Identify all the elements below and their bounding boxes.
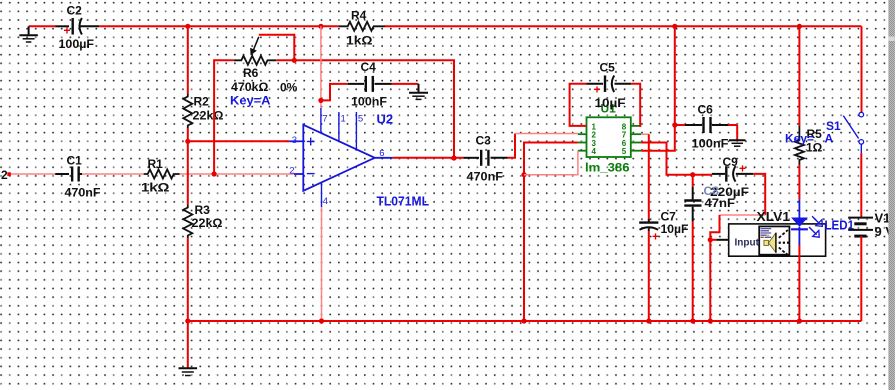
speaker XLV1 icon frame	[759, 226, 789, 254]
svg-text:C1: C1	[67, 154, 83, 168]
label pin 1	[341, 114, 346, 125]
wire op-amp V+ riser from top rail	[320, 26, 322, 108]
svg-text:47nF: 47nF	[705, 196, 736, 210]
wire GND2 stub below rail	[187, 321, 189, 368]
wire C8 to bottom rail	[692, 222, 694, 321]
port 2 input terminal	[1, 168, 11, 182]
LED LED1	[791, 199, 808, 245]
wire to U1 pin 2 (signal)	[515, 133, 578, 135]
svg-text:470nF: 470nF	[65, 186, 101, 200]
label 470kOhm value of R6	[231, 80, 269, 94]
wire feedback R6 right to output node	[276, 60, 454, 158]
capacitor C1 470nF	[55, 167, 82, 182]
U1 pin 6 stub	[631, 142, 641, 144]
wire S1 to battery V1	[860, 153, 862, 217]
svg-text:U2: U2	[377, 112, 394, 127]
resistor R1 1k	[144, 170, 180, 179]
label C5	[600, 61, 616, 75]
junction top rail at C6 riser	[672, 24, 677, 29]
U1 pin 2 number	[592, 131, 597, 140]
op-amp U2 pin 1 lead	[338, 112, 340, 142]
svg-text:A: A	[825, 132, 834, 146]
svg-text:C4: C4	[361, 60, 377, 74]
svg-text:1kΩ: 1kΩ	[141, 181, 170, 195]
label R3	[195, 203, 211, 217]
battery V1 9V	[848, 218, 873, 237]
resistor R4 1k in top rail	[339, 22, 385, 31]
speaker XLV1 document icon	[761, 229, 772, 238]
wire R2 bottom to node A junction	[187, 128, 189, 141]
junction top rail at op-amp supply riser	[318, 24, 323, 29]
switch S1	[843, 112, 863, 153]
svg-text:R2: R2	[194, 95, 210, 109]
speaker XLV1 box	[729, 224, 826, 256]
label U2	[377, 112, 394, 127]
svg-text:R6: R6	[243, 66, 259, 80]
op-amp U2 pin 4 lead	[321, 183, 323, 208]
junction bottom rail at C7	[646, 318, 651, 323]
label 22kOhm value of R3	[192, 216, 223, 230]
label pin 5	[358, 114, 363, 125]
U1 pin 4 stub	[578, 150, 587, 152]
label Input of XLV1	[735, 238, 760, 249]
svg-text:10µF: 10µF	[661, 222, 689, 236]
junction speaker input node	[708, 237, 713, 242]
svg-text:7: 7	[322, 114, 327, 125]
svg-text:C9: C9	[723, 155, 739, 169]
junction bottom rail at pin 4	[319, 318, 324, 323]
svg-text:XLV1: XLV1	[757, 210, 791, 224]
capacitor C4 100nF	[348, 76, 392, 92]
U1 pin 7 stub	[631, 133, 641, 135]
svg-text:C6: C6	[698, 103, 714, 117]
wire C9 to speaker elbows	[710, 174, 765, 240]
svg-text:5: 5	[622, 147, 627, 156]
svg-text:Key=: Key=	[785, 132, 814, 146]
U1 pin 5 stub	[631, 150, 641, 152]
wire op-amp pin 4 to bottom rail	[321, 207, 323, 321]
wire top rail corner down to S1	[861, 26, 863, 112]
wire R6 left terminal elbow down to inverting node	[214, 60, 234, 174]
U1 pin 3 number	[592, 139, 597, 148]
junction R6 bottom / inverting input	[212, 171, 217, 176]
svg-text:C2: C2	[67, 4, 83, 18]
junction C6 riser	[672, 122, 677, 127]
ground GND1 top-left	[19, 26, 37, 42]
wire battery V1 to bottom rail corner	[860, 236, 862, 321]
label 47nF value of C8	[705, 196, 736, 210]
label XLV1	[757, 210, 791, 224]
svg-text:Input: Input	[735, 238, 760, 249]
label A key of S1	[825, 132, 834, 146]
op-amp U2 pin 3 stub	[289, 140, 303, 142]
wire U1 pin 5 to C6 riser	[641, 26, 675, 150]
ground GND3 at C4	[409, 84, 428, 100]
label pin 3	[292, 135, 297, 146]
wire top rail R4 to battery branch	[385, 25, 862, 27]
junction bottom rail at LED1	[797, 318, 802, 323]
svg-text:1: 1	[341, 114, 346, 125]
op-amp U2 triangle	[303, 125, 374, 191]
svg-text:22kΩ: 22kΩ	[193, 109, 224, 123]
wire C5 right riser to U1 pin 8	[631, 84, 641, 126]
label 10uF value of C7	[661, 222, 689, 236]
junction bottom rail at pin3 riser	[521, 318, 526, 323]
capacitor C8 47nF vertical	[684, 187, 701, 222]
svg-text:C5: C5	[600, 61, 616, 75]
capacitor C9 220uF polarized	[712, 162, 753, 182]
wire R3 bottom to bottom rail	[187, 238, 189, 321]
svg-text:100nF: 100nF	[692, 137, 729, 151]
label 100nF value of C4	[351, 95, 387, 109]
U1 pin 8 number	[622, 122, 627, 131]
wire U1 pin 3 to ground riser	[524, 143, 578, 322]
wire C8 from junction	[692, 175, 694, 187]
U1 pin 5 number	[622, 147, 627, 156]
wire R5 to LED1	[798, 165, 800, 200]
label R5	[807, 127, 823, 141]
resistor R2 22k vertical	[183, 94, 192, 128]
svg-text:TL071ML: TL071ML	[377, 193, 430, 208]
label C3	[476, 134, 492, 148]
label U1	[601, 102, 617, 116]
wire R1 to op-amp pin 2 (signal)	[180, 173, 294, 175]
wire C4 right to GND3	[392, 83, 419, 85]
label 0% wiper position	[280, 81, 298, 95]
label pin 4	[323, 196, 328, 207]
wire U1 pin 4 to riser	[524, 151, 578, 175]
U1 pin 6 number	[622, 139, 627, 148]
speaker XLV1 horn icon	[764, 233, 776, 253]
wire node A down to R3	[187, 141, 189, 205]
potentiometer R6 wiper arrow	[250, 37, 259, 56]
U1 pin 3 stub	[578, 142, 587, 144]
svg-text:S1: S1	[826, 119, 841, 133]
svg-text:100nF: 100nF	[351, 95, 387, 109]
label Key=A of R6	[230, 94, 271, 108]
wire R6 wiper to right terminal	[259, 35, 295, 61]
svg-text:R3: R3	[195, 203, 211, 217]
resistor R3 22k vertical	[183, 205, 192, 238]
op-amp U2 pin 5 lead	[355, 112, 357, 150]
label S1	[826, 119, 841, 133]
svg-text:R1: R1	[148, 157, 164, 171]
svg-text:4: 4	[323, 196, 328, 207]
svg-text:C3: C3	[476, 134, 492, 148]
wire R2 riser from top rail	[187, 26, 189, 94]
label LED1	[825, 218, 855, 233]
label R2	[194, 95, 210, 109]
junction bottom rail at R3/GND2	[185, 318, 190, 323]
label 22kOhm value of R2	[193, 109, 224, 123]
label 100nF value of C6	[692, 137, 729, 151]
label C1	[67, 154, 83, 168]
wire C7 to bottom rail	[648, 231, 650, 321]
wire R5 riser from top rail	[798, 26, 800, 126]
svg-text:6: 6	[379, 148, 384, 159]
label 10uF value of C5	[595, 96, 626, 110]
capacitor C6 100nF	[675, 117, 728, 133]
junction bottom rail at C8	[690, 318, 695, 323]
junction top rail at R2	[185, 24, 190, 29]
svg-text:1kΩ: 1kΩ	[346, 34, 373, 48]
wire U1 pin 6 to output junction	[641, 143, 693, 175]
LED1 emission arrows	[809, 216, 822, 237]
svg-text:Key=A: Key=A	[230, 94, 271, 108]
svg-text:470nF: 470nF	[467, 170, 504, 184]
wire speaker stub	[710, 239, 728, 241]
wire bottom rail	[188, 320, 862, 322]
svg-text:R4: R4	[351, 9, 367, 23]
wire op-amp output to C3	[393, 157, 464, 159]
label Key= of S1	[785, 132, 814, 146]
ground GND2 bottom	[179, 368, 198, 375]
wire C1 to R1 (signal)	[82, 173, 144, 175]
svg-text:+: +	[652, 230, 659, 244]
capacitor C7 10uF polarized vertical	[639, 219, 659, 244]
IC U1 lm_386 body	[587, 117, 631, 157]
op-amp U2 pin 6 stub	[375, 157, 393, 159]
U1 pin 7 number	[622, 131, 627, 140]
junction R6 right terminal	[292, 58, 297, 63]
wire top rail C2 to R4	[99, 25, 339, 27]
wire C5 left riser to U1 pin 1	[570, 84, 587, 126]
wire LED1 to bottom rail	[798, 245, 800, 321]
label C9	[723, 155, 739, 169]
junction node A (R2/R3/pin3)	[185, 139, 190, 144]
U1 pin 4 number	[592, 147, 597, 156]
label C8	[704, 184, 720, 198]
label C4	[361, 60, 377, 74]
wire speaker node to bottom rail	[709, 240, 711, 321]
U1 pin 8 stub	[631, 125, 641, 127]
label 9 V value of V1	[875, 224, 895, 239]
svg-text:+: +	[594, 83, 601, 97]
svg-text:4: 4	[592, 147, 597, 156]
svg-text:0%: 0%	[280, 81, 298, 95]
label pin 2	[289, 165, 294, 176]
svg-text:+: +	[739, 162, 746, 176]
wire U1 pin 7 stub to C7 riser (signal)	[641, 133, 649, 135]
label 470nF value of C1	[65, 186, 101, 200]
svg-text:470kΩ: 470kΩ	[231, 80, 269, 94]
label pin 7	[322, 114, 327, 125]
label 470nF value of C3	[467, 170, 504, 184]
junction pin3 riser / pin4 wire	[521, 172, 526, 177]
junction output node / feedback	[451, 155, 456, 160]
resistor R5 1 Ohm vertical	[795, 126, 804, 165]
wire junction to C9	[693, 174, 712, 176]
label 1kOhm value of R1	[141, 181, 170, 195]
junction bottom rail at speaker	[708, 318, 713, 323]
label R4	[351, 9, 367, 23]
wire node A to op-amp pin 3	[188, 140, 290, 142]
wire C6 right to GND4	[728, 125, 737, 140]
junction top rail at R5 riser	[797, 24, 802, 29]
svg-text:3: 3	[292, 135, 297, 146]
wire C4 left elbow	[321, 84, 348, 101]
label R6	[243, 66, 259, 80]
label C2	[67, 4, 83, 18]
svg-text:5: 5	[358, 114, 363, 125]
svg-text:22kΩ: 22kΩ	[192, 216, 223, 230]
label 220uF value of C9	[710, 185, 749, 199]
label 100uF value of C2	[59, 37, 95, 51]
junction C8/C9 node	[690, 172, 695, 177]
svg-text:10µF: 10µF	[595, 96, 626, 110]
capacitor C5 10uF polarized	[586, 75, 631, 96]
junction V+ riser / C4	[318, 98, 323, 103]
label TL071ML part of U2	[377, 193, 430, 208]
capacitor C2 100uF polarized	[56, 18, 100, 37]
label 1kOhm value of R4	[346, 34, 373, 48]
wire top rail left (GND1 to C2)	[29, 25, 56, 27]
ground GND4 at C6	[729, 140, 746, 146]
svg-text:2: 2	[289, 165, 294, 176]
svg-text:lm_386: lm_386	[585, 161, 630, 175]
svg-text:2: 2	[1, 168, 8, 182]
label C7	[661, 210, 677, 224]
potentiometer R6 470k body	[234, 56, 277, 65]
op-amp U2 pin 7 lead	[320, 108, 322, 133]
wire port 2 to C1 (signal)	[11, 173, 55, 175]
speaker XLV1 sound rays	[779, 230, 790, 254]
U1 pin 1 number	[592, 122, 597, 131]
label V1	[875, 211, 891, 226]
label C6	[698, 103, 714, 117]
wire C7 riser	[648, 134, 650, 219]
label 1 Ohm value of R5	[806, 141, 823, 155]
label R1	[148, 157, 164, 171]
capacitor C3 470nF	[463, 150, 507, 166]
label lm_386 part of U1	[585, 161, 630, 175]
op-amp U2 pin 2 stub	[294, 173, 303, 175]
scrollbar track right edge	[888, 0, 895, 390]
U1 pin 2 stub	[578, 133, 587, 135]
svg-text:+: +	[64, 24, 71, 38]
wire C3 to U1 pin 2 elbow	[508, 134, 516, 158]
label pin 6	[379, 148, 384, 159]
svg-text:100µF: 100µF	[59, 37, 95, 51]
